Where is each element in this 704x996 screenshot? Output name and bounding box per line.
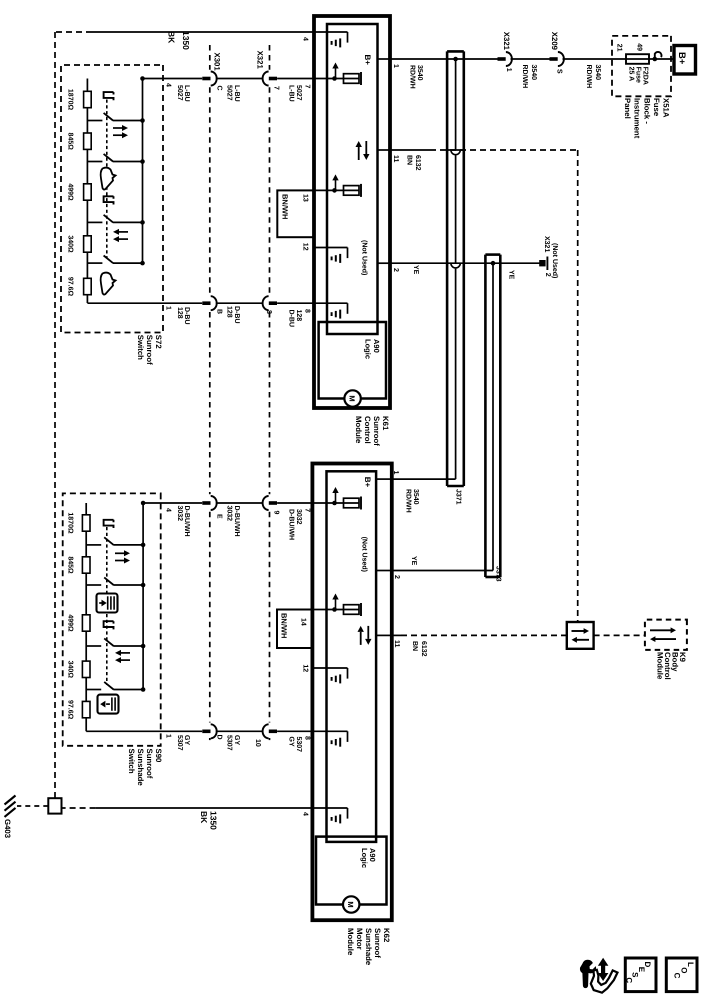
svg-text:L-BU: L-BU <box>287 85 294 102</box>
svg-text:BN/WH: BN/WH <box>280 613 289 638</box>
svg-text:Fuse: Fuse <box>652 98 661 117</box>
svg-text:Panel: Panel <box>623 98 632 119</box>
svg-text:Sunroof: Sunroof <box>145 335 154 365</box>
svg-text:6132: 6132 <box>414 155 421 171</box>
svg-text:7: 7 <box>273 86 280 90</box>
svg-text:D-BU: D-BU <box>183 307 190 325</box>
svg-text:845Ω: 845Ω <box>67 556 74 574</box>
svg-text:X209: X209 <box>550 32 559 51</box>
svg-text:RD/WH: RD/WH <box>585 65 593 89</box>
svg-text:A90: A90 <box>372 339 381 353</box>
svg-text:C: C <box>624 977 633 983</box>
svg-text:(Not Used): (Not Used) <box>361 240 369 275</box>
svg-text:BK: BK <box>199 811 209 824</box>
svg-text:Block -: Block - <box>643 98 652 124</box>
svg-text:5027: 5027 <box>226 85 233 101</box>
svg-text:B: B <box>216 309 223 314</box>
svg-text:Sunroof: Sunroof <box>372 416 381 446</box>
svg-text:Switch: Switch <box>127 749 136 774</box>
svg-text:128: 128 <box>295 310 302 322</box>
svg-text:9: 9 <box>273 511 280 515</box>
svg-text:4: 4 <box>301 812 308 816</box>
svg-text:12: 12 <box>302 664 309 672</box>
svg-text:M: M <box>347 395 356 401</box>
svg-text:97.6Ω: 97.6Ω <box>67 700 74 720</box>
svg-text:3032: 3032 <box>176 506 183 522</box>
svg-text:Module: Module <box>346 928 355 956</box>
svg-text:14: 14 <box>300 618 307 626</box>
svg-text:Sunshade: Sunshade <box>364 928 373 966</box>
svg-text:S72: S72 <box>154 335 163 350</box>
svg-text:Logic: Logic <box>364 339 373 359</box>
svg-text:97.6Ω: 97.6Ω <box>67 277 74 297</box>
svg-text:D-BU/WH: D-BU/WH <box>183 506 191 537</box>
svg-text:11: 11 <box>393 640 400 648</box>
svg-text:Module: Module <box>656 652 665 680</box>
svg-text:K61: K61 <box>381 416 390 431</box>
svg-text:Control: Control <box>363 416 372 444</box>
svg-text:D-BU/WH: D-BU/WH <box>233 506 241 537</box>
svg-text:D-BU/WH: D-BU/WH <box>287 509 295 540</box>
svg-text:1: 1 <box>392 64 399 68</box>
svg-text:49: 49 <box>636 43 643 51</box>
svg-text:845Ω: 845Ω <box>67 133 74 151</box>
svg-text:1: 1 <box>165 306 172 310</box>
svg-text:L: L <box>686 962 695 967</box>
svg-text:BN: BN <box>406 155 413 165</box>
svg-text:D: D <box>216 735 223 740</box>
svg-text:6132: 6132 <box>420 641 427 657</box>
svg-text:12: 12 <box>302 243 309 251</box>
svg-text:D-BU: D-BU <box>287 310 294 328</box>
svg-text:1: 1 <box>165 734 172 738</box>
svg-text:C: C <box>673 973 682 979</box>
svg-text:X321: X321 <box>502 32 511 51</box>
svg-text:K62: K62 <box>382 928 391 943</box>
svg-text:3540: 3540 <box>412 489 419 505</box>
svg-text:3540: 3540 <box>416 65 423 81</box>
svg-text:25 A: 25 A <box>628 67 635 82</box>
svg-text:F2DA: F2DA <box>642 67 649 85</box>
svg-text:(Not Used): (Not Used) <box>551 243 559 278</box>
svg-text:3032: 3032 <box>295 509 302 525</box>
svg-text:D-BU: D-BU <box>233 306 240 324</box>
svg-text:8: 8 <box>304 736 311 740</box>
svg-text:21: 21 <box>616 44 623 52</box>
svg-text:4: 4 <box>165 508 172 512</box>
svg-text:1350: 1350 <box>209 811 219 830</box>
svg-text:11: 11 <box>392 155 399 163</box>
svg-text:Fuse: Fuse <box>635 67 642 83</box>
svg-text:7: 7 <box>304 85 311 89</box>
svg-text:BN: BN <box>411 641 418 651</box>
svg-text:5307: 5307 <box>226 735 233 751</box>
svg-text:340Ω: 340Ω <box>67 661 74 679</box>
svg-text:YE: YE <box>412 265 419 275</box>
svg-text:Sunroof: Sunroof <box>373 928 382 958</box>
svg-text:X51A: X51A <box>661 98 670 118</box>
svg-text:3540: 3540 <box>530 65 537 81</box>
svg-text:5307: 5307 <box>176 735 183 751</box>
svg-text:2: 2 <box>544 273 551 277</box>
svg-text:Sunshade: Sunshade <box>136 749 145 787</box>
svg-text:J371: J371 <box>455 489 462 505</box>
svg-text:8: 8 <box>265 310 272 314</box>
svg-text:B+: B+ <box>363 54 372 65</box>
svg-text:1870Ω: 1870Ω <box>67 512 74 534</box>
svg-text:499Ω: 499Ω <box>67 614 74 632</box>
svg-text:3032: 3032 <box>226 506 233 522</box>
svg-text:J373: J373 <box>495 566 502 582</box>
svg-text:E: E <box>216 514 223 519</box>
svg-text:YE: YE <box>410 556 417 566</box>
svg-text:RD/WH: RD/WH <box>521 65 529 89</box>
svg-text:C: C <box>216 86 223 91</box>
svg-text:1870Ω: 1870Ω <box>67 89 74 111</box>
svg-text:GY: GY <box>183 735 190 745</box>
svg-text:5027: 5027 <box>176 85 183 101</box>
svg-text:13: 13 <box>302 194 309 202</box>
svg-text:Logic: Logic <box>360 848 369 868</box>
svg-text:7: 7 <box>304 508 311 512</box>
svg-text:5307: 5307 <box>295 737 302 753</box>
svg-text:128: 128 <box>176 307 183 319</box>
svg-text:A90: A90 <box>368 848 377 862</box>
svg-text:X301: X301 <box>213 53 222 72</box>
svg-text:G403: G403 <box>3 819 12 839</box>
svg-text:Sunroof: Sunroof <box>145 749 154 779</box>
svg-text:L-BU: L-BU <box>233 85 240 102</box>
svg-text:340Ω: 340Ω <box>67 235 74 253</box>
svg-text:(Not Used): (Not Used) <box>361 537 369 572</box>
svg-text:BK: BK <box>167 31 177 44</box>
svg-text:2: 2 <box>393 575 400 579</box>
svg-text:10: 10 <box>254 739 261 747</box>
svg-text:S: S <box>556 69 563 74</box>
svg-text:4: 4 <box>165 83 172 87</box>
svg-text:X321: X321 <box>543 236 550 252</box>
svg-text:Module: Module <box>354 416 363 444</box>
svg-text:GY: GY <box>233 735 240 745</box>
svg-text:X321: X321 <box>256 51 265 70</box>
svg-text:499Ω: 499Ω <box>67 183 74 201</box>
svg-text:1350: 1350 <box>181 31 191 50</box>
svg-text:BN/WH: BN/WH <box>281 194 290 219</box>
svg-text:RD/WH: RD/WH <box>409 65 417 89</box>
svg-text:Motor: Motor <box>355 928 364 950</box>
svg-text:5027: 5027 <box>295 85 302 101</box>
svg-text:8: 8 <box>304 309 311 313</box>
svg-text:YE: YE <box>508 270 515 280</box>
svg-text:Switch: Switch <box>136 335 145 360</box>
svg-text:1: 1 <box>505 68 512 72</box>
svg-text:L-BU: L-BU <box>183 85 190 102</box>
svg-text:B+: B+ <box>676 52 687 65</box>
svg-text:B+: B+ <box>363 477 372 488</box>
svg-text:GY: GY <box>287 737 294 747</box>
svg-text:M: M <box>346 901 355 907</box>
svg-text:Instrument: Instrument <box>633 98 642 139</box>
svg-text:S90: S90 <box>154 749 163 764</box>
svg-text:2: 2 <box>392 268 399 272</box>
svg-text:RD/WH: RD/WH <box>405 489 413 513</box>
svg-text:4: 4 <box>301 37 308 41</box>
svg-text:3540: 3540 <box>594 65 601 81</box>
svg-text:128: 128 <box>226 306 233 318</box>
svg-text:1: 1 <box>392 471 399 475</box>
